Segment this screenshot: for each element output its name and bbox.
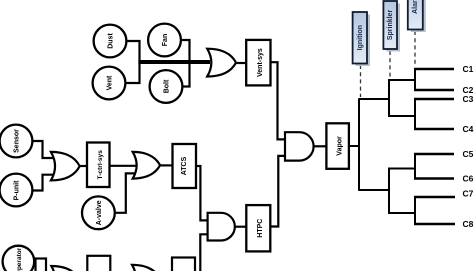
svg-text:Fan: Fan	[162, 34, 169, 46]
wire Fan/Bolt bracket	[181, 40, 190, 87]
svg-text:Bolt: Bolt	[164, 79, 171, 93]
svg-text:T-ctrl-sys: T-ctrl-sys	[97, 150, 104, 180]
dashed link Sprinkler	[389, 51, 391, 79]
lower level-2 vertical	[388, 169, 390, 214]
barrier Alarm shadow	[411, 0, 426, 32]
svg-text:C1: C1	[463, 64, 474, 74]
svg-text:Sensor: Sensor	[14, 129, 21, 153]
wire Vapor to event tree root	[349, 145, 360, 147]
upper level-2 vertical	[388, 80, 390, 116]
branch C3	[414, 98, 454, 100]
event box ATCS	[173, 144, 197, 188]
wire to C1C2 split	[388, 79, 415, 81]
wire trunk to OR gate G0	[138, 60, 210, 64]
basic event P-unit	[0, 174, 32, 207]
svg-text:HTPC: HTPC	[257, 219, 264, 238]
C3C4 split vertical	[414, 99, 416, 129]
basic event A-valve	[82, 196, 115, 229]
branch C5	[414, 153, 454, 155]
wire to C3C4 split	[388, 115, 415, 117]
svg-text:C8: C8	[463, 219, 474, 229]
cut OR gate A	[51, 266, 79, 271]
OR gate G2	[51, 152, 80, 181]
C5C6 split vertical	[414, 154, 416, 179]
basic event Bolt	[150, 70, 183, 103]
wire G3 output	[160, 164, 172, 166]
wire T-ctrl-sys to OR G3	[110, 165, 138, 167]
barrier Ignition shadow	[356, 15, 370, 67]
dashed link Alarm	[414, 31, 416, 67]
cut small box after Operator	[36, 259, 47, 271]
wire bottom riser to AND G4 bottom input	[200, 234, 208, 271]
svg-text:Dust: Dust	[108, 33, 115, 49]
wire Vent-sys to AND G1 top input	[271, 62, 286, 139]
AND gate G4	[208, 213, 235, 241]
wire G2 output	[80, 165, 87, 167]
wire root bottom branch	[358, 189, 389, 191]
dashed link Ignition	[360, 65, 362, 97]
svg-text:C3: C3	[463, 94, 474, 104]
svg-text:P-unit: P-unit	[14, 180, 21, 200]
event box Vapor	[326, 123, 349, 169]
wire A-valve to OR G3	[116, 173, 139, 212]
wire G4 output	[235, 226, 246, 228]
wire G1 output	[314, 145, 327, 147]
branch C1	[414, 68, 454, 70]
svg-text:Sprinkler: Sprinkler	[387, 10, 394, 41]
branch C7	[414, 196, 455, 198]
AND gate G1	[285, 132, 314, 160]
svg-text:Ignition: Ignition	[357, 25, 364, 50]
cut OR gate B	[132, 265, 160, 271]
wire P-unit to OR G2	[33, 175, 57, 191]
event box Vent-sys	[246, 40, 270, 86]
wire Sensor to OR G2	[33, 141, 57, 158]
svg-text:C7: C7	[463, 189, 474, 199]
wire Dust/Vent bracket	[126, 41, 140, 83]
svg-text:Vapor: Vapor	[336, 136, 343, 156]
basic event Vent	[93, 67, 126, 100]
wire root top branch	[358, 98, 389, 100]
barrier Ignition	[353, 12, 367, 64]
basic event Operator	[3, 246, 35, 271]
svg-text:Operator: Operator	[16, 247, 23, 271]
OR gate G3	[133, 152, 160, 179]
cut event box B1	[87, 256, 110, 271]
barrier Sprinkler shadow	[386, 4, 400, 52]
basic event Fan	[148, 24, 181, 57]
event box T-ctrl-sys	[87, 143, 110, 188]
basic event Dust	[94, 25, 127, 58]
svg-text:C6: C6	[463, 174, 474, 184]
basic event Sensor	[0, 125, 32, 158]
wire HTPC to AND G1 bottom input	[270, 156, 285, 227]
barrier Alarm	[408, 0, 423, 30]
C7C8 split vertical	[414, 197, 416, 224]
wire G0 output	[235, 62, 246, 64]
barrier Sprinkler	[383, 1, 397, 49]
svg-text:Vent-sys: Vent-sys	[257, 48, 264, 77]
branch C4	[414, 128, 454, 130]
svg-text:C4: C4	[463, 124, 474, 134]
svg-text:Vent: Vent	[107, 75, 114, 90]
svg-text:A-valve: A-valve	[96, 200, 103, 225]
branch C8	[414, 223, 455, 225]
wire to C7C8 split	[388, 212, 415, 214]
C1C2 split vertical	[414, 69, 416, 90]
svg-text:C5: C5	[463, 149, 474, 159]
wire ATCS to AND G4 top input	[196, 166, 208, 220]
wire to C5C6 split	[388, 168, 415, 170]
svg-text:Alarm: Alarm	[412, 0, 419, 14]
branch C6	[414, 177, 454, 179]
event tree root vertical	[358, 99, 360, 190]
OR gate G0	[207, 49, 236, 77]
event box HTPC	[246, 205, 270, 251]
cut event box B2	[172, 258, 195, 271]
branch C2	[414, 89, 454, 91]
svg-text:ATCS: ATCS	[181, 156, 188, 175]
